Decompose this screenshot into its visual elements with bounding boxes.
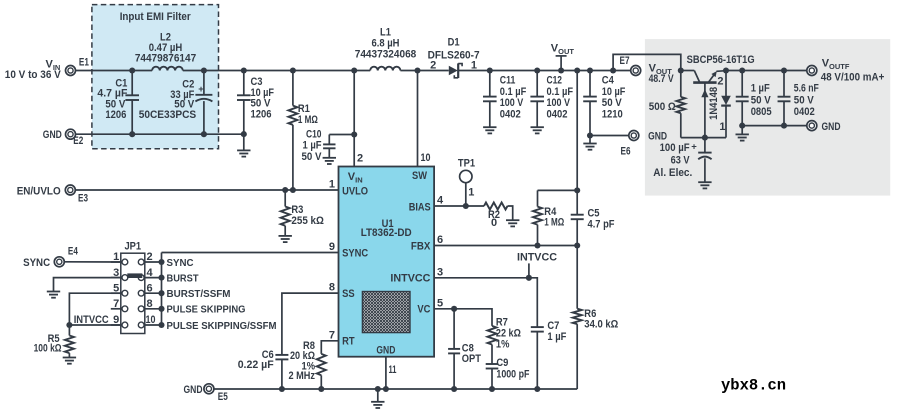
capacitor 5.6nF xyxy=(778,71,819,126)
svg-text:ybx8.cn: ybx8.cn xyxy=(721,377,786,395)
svg-text:48.7 V: 48.7 V xyxy=(649,73,675,85)
svg-text:1210: 1210 xyxy=(602,109,623,121)
svg-text:5: 5 xyxy=(437,297,443,309)
svg-text:50 V: 50 V xyxy=(751,94,772,106)
capacitor C9 xyxy=(486,345,530,390)
svg-text:PULSE SKIPPING/SSFM: PULSE SKIPPING/SSFM xyxy=(167,321,277,332)
node VIN pin wire xyxy=(351,67,357,73)
svg-text:PULSE SKIPPING: PULSE SKIPPING xyxy=(167,305,246,316)
JP1 pin 2 number xyxy=(147,251,153,263)
JP1 pin 5 number xyxy=(113,282,119,294)
wire FBX to R6 xyxy=(576,246,578,309)
watermark ybx8.cn xyxy=(721,377,786,395)
svg-text:EN/UVLO: EN/UVLO xyxy=(17,185,61,197)
JP1 left pin stubs xyxy=(111,262,122,325)
wire SW pin 10 xyxy=(417,71,419,167)
inductor L2 xyxy=(135,31,196,70)
node 1uF bottom xyxy=(739,123,745,129)
svg-text:7: 7 xyxy=(329,329,335,341)
node 5.6nF top xyxy=(781,67,787,73)
node C8 bottom xyxy=(451,386,457,392)
connector JP1 xyxy=(121,240,145,333)
svg-text:0402: 0402 xyxy=(500,109,521,121)
JP1 pin 9 number xyxy=(113,314,119,326)
svg-text:E3: E3 xyxy=(78,193,88,205)
svg-text:100 V: 100 V xyxy=(500,97,524,109)
svg-text:E5: E5 xyxy=(218,391,228,403)
svg-text:10 V to 36 V: 10 V to 36 V xyxy=(5,69,62,81)
Input EMI Filter box xyxy=(92,5,219,149)
wire bus to SYNC pin9 xyxy=(162,252,339,254)
svg-text:SBCP56-16T1G: SBCP56-16T1G xyxy=(687,54,755,66)
label GND E5 xyxy=(184,384,203,396)
svg-text:6: 6 xyxy=(147,282,153,294)
terminal E7 xyxy=(620,55,641,75)
JP1 pin 4 number xyxy=(147,267,154,279)
svg-text:1 µF: 1 µF xyxy=(303,139,322,151)
label VOUTF xyxy=(821,57,885,83)
wire EN/UVLO xyxy=(75,189,338,191)
ground below 1uF xyxy=(736,126,749,141)
svg-text:+: + xyxy=(691,142,697,153)
svg-text:1206: 1206 xyxy=(105,109,126,121)
svg-text:E6: E6 xyxy=(621,146,631,158)
label VOUT 48.7V xyxy=(649,62,675,85)
svg-text:50 V: 50 V xyxy=(794,94,815,106)
capacitor C2 xyxy=(139,71,213,135)
svg-text:50 V: 50 V xyxy=(302,151,323,163)
svg-text:LT8362-DD: LT8362-DD xyxy=(361,227,412,239)
node R8 bottom xyxy=(318,386,324,392)
terminal E3 xyxy=(65,185,88,205)
wire R2 to gnd xyxy=(508,206,513,220)
JP1 pin 6 number xyxy=(147,282,153,294)
ground below C10 xyxy=(323,148,336,164)
wire C4 to E6 xyxy=(590,135,629,137)
svg-text:BURST/SSFM: BURST/SSFM xyxy=(167,289,231,300)
wire GND rail E2 xyxy=(75,133,243,135)
node C3 bottom xyxy=(241,131,247,137)
svg-text:8: 8 xyxy=(147,298,153,310)
node R4C5 top xyxy=(574,187,580,193)
svg-text:JP1: JP1 xyxy=(124,240,141,252)
label GND E6 xyxy=(648,131,667,143)
node R1 bottom xyxy=(290,187,296,193)
svg-text:GND: GND xyxy=(648,131,667,143)
node gnd stub xyxy=(375,386,381,392)
capacitor C3 xyxy=(237,71,274,135)
wire emitter rail xyxy=(726,70,807,72)
ground below C12 xyxy=(531,127,544,133)
node C2 top xyxy=(201,67,207,73)
svg-text:7: 7 xyxy=(113,298,119,310)
pin number 6 xyxy=(437,234,443,246)
pin number 5 xyxy=(437,297,443,309)
node VOUT 48.7V xyxy=(678,67,684,73)
label GND E2 xyxy=(43,129,62,141)
resistor R3 xyxy=(281,190,324,236)
svg-text:Al. Elec.: Al. Elec. xyxy=(653,167,692,179)
resistor R2 xyxy=(484,203,508,229)
wire VOUT node to transistor xyxy=(681,70,695,72)
svg-text:6: 6 xyxy=(437,234,443,246)
capacitor C11 xyxy=(483,71,527,128)
svg-text:1 MΩ: 1 MΩ xyxy=(544,217,564,229)
pin number 9 xyxy=(329,241,335,253)
node C3 top xyxy=(241,67,247,73)
svg-text:UVLO: UVLO xyxy=(342,185,368,197)
resistor R7 xyxy=(488,316,522,350)
svg-text:SS: SS xyxy=(342,288,355,300)
capacitor C6 xyxy=(238,349,289,389)
wire VIN rail xyxy=(75,70,630,72)
svg-text:SW: SW xyxy=(412,170,428,182)
capacitor 100uF xyxy=(653,138,711,183)
wire VIN pin 2 xyxy=(353,71,355,167)
node 1N4148 top xyxy=(723,67,729,73)
pin number 4 xyxy=(437,194,444,206)
svg-text:0.22 µF: 0.22 µF xyxy=(238,359,274,371)
node 5.6nF bottom xyxy=(781,123,787,129)
svg-text:GND: GND xyxy=(376,345,395,357)
svg-text:2: 2 xyxy=(717,75,723,87)
svg-text:0402: 0402 xyxy=(547,109,568,121)
wire JP1 pin9 INTVCC xyxy=(69,314,120,326)
label PULSE SKIPPING/SSFM xyxy=(167,321,277,332)
svg-text:+: + xyxy=(198,84,204,95)
node SW pin wire xyxy=(414,67,420,73)
svg-text:Input EMI Filter: Input EMI Filter xyxy=(120,11,192,23)
wire INTVCC pin3 xyxy=(434,278,537,327)
svg-text:E2: E2 xyxy=(73,135,83,147)
svg-text:0402: 0402 xyxy=(794,106,815,118)
node C5 bottom xyxy=(574,242,580,248)
svg-text:100 µF: 100 µF xyxy=(660,142,690,154)
capacitor C12 xyxy=(530,71,573,128)
svg-text:D1: D1 xyxy=(448,36,460,48)
op-amp U1 LT8362-DD box xyxy=(339,167,435,357)
node INTVCC R5 xyxy=(66,322,72,328)
wire E7 bridge to output stage xyxy=(613,54,681,70)
svg-text:BIAS: BIAS xyxy=(409,201,431,213)
svg-text:2: 2 xyxy=(147,251,153,263)
svg-text:1N4148: 1N4148 xyxy=(708,87,720,120)
capacitor 1uF xyxy=(736,71,772,126)
wire feedback vertical xyxy=(576,71,578,191)
ground below rail xyxy=(371,389,384,408)
svg-text:5.6 nF: 5.6 nF xyxy=(794,83,819,95)
JP1 pin 7 number xyxy=(113,298,119,310)
svg-text:100 V: 100 V xyxy=(547,97,571,109)
wire base lead xyxy=(701,83,708,138)
node C10 tap xyxy=(351,131,357,137)
node INTVCC stub xyxy=(526,275,532,281)
resistor R8 xyxy=(289,340,326,389)
U1 exposed pad xyxy=(362,292,410,333)
terminal E1 xyxy=(66,57,89,76)
wire E4 to JP1 pin1 xyxy=(64,261,122,263)
svg-text:1 µF: 1 µF xyxy=(751,83,770,95)
svg-text:74479876147: 74479876147 xyxy=(135,52,196,64)
pin number 2 xyxy=(357,153,363,165)
node TP1 xyxy=(463,203,469,209)
wire bottom gnd rail xyxy=(214,388,577,390)
terminal E5 xyxy=(204,384,228,403)
svg-text:100 kΩ: 100 kΩ xyxy=(34,342,62,354)
svg-text:48 V/100 mA+: 48 V/100 mA+ xyxy=(821,72,885,84)
svg-text:GND: GND xyxy=(184,384,203,396)
node FB vertical top xyxy=(574,67,580,73)
node base net xyxy=(702,135,708,141)
diode 1N4148 xyxy=(708,71,731,138)
node C9 bottom xyxy=(489,386,495,392)
svg-text:GND: GND xyxy=(822,121,841,133)
svg-text:GND: GND xyxy=(43,129,62,141)
pin number 7 xyxy=(329,329,335,341)
svg-text:255 kΩ: 255 kΩ xyxy=(291,215,324,227)
pin number 3 xyxy=(437,266,443,278)
terminal GND out xyxy=(807,121,841,133)
node C12 top xyxy=(534,67,540,73)
wire GND pin11 xyxy=(385,357,387,389)
wire SS pin8 xyxy=(282,293,339,355)
svg-text:1: 1 xyxy=(719,121,725,133)
svg-text:BURST: BURST xyxy=(167,273,199,284)
svg-text:1 MΩ: 1 MΩ xyxy=(298,114,318,126)
node R4 bottom xyxy=(534,242,540,248)
svg-text:SYNC: SYNC xyxy=(342,247,368,259)
svg-text:1: 1 xyxy=(471,60,477,72)
svg-text:2: 2 xyxy=(430,60,436,72)
svg-text:INTVCC: INTVCC xyxy=(390,273,430,285)
pin number 11 xyxy=(389,364,397,376)
label BURST/SSFM xyxy=(167,289,231,300)
svg-text:C9: C9 xyxy=(496,357,508,369)
svg-text:INTVCC: INTVCC xyxy=(517,252,557,264)
capacitor C8 xyxy=(448,309,481,389)
svg-text:C4: C4 xyxy=(602,75,615,87)
node E7 bridge xyxy=(610,67,616,73)
terminal E6 xyxy=(621,131,639,158)
svg-text:SYNC: SYNC xyxy=(23,257,50,269)
ground below 100uF xyxy=(698,182,711,188)
svg-text:11: 11 xyxy=(389,364,397,376)
svg-text:VC: VC xyxy=(417,304,430,316)
output filter gray box xyxy=(645,39,890,196)
label SBCP56-16T1G xyxy=(687,54,755,66)
wire base net xyxy=(681,137,726,139)
svg-text:2 MHz: 2 MHz xyxy=(289,370,316,382)
svg-text:500 Ω: 500 Ω xyxy=(649,101,676,113)
ground below R3 xyxy=(279,236,292,242)
label BURST xyxy=(167,273,199,284)
terminal VOUTF xyxy=(807,66,817,76)
node C11 top xyxy=(487,67,493,73)
svg-text:1: 1 xyxy=(468,186,474,198)
label VIN input xyxy=(5,59,62,81)
resistor R6 xyxy=(573,308,619,389)
wire JP1 pin5 xyxy=(69,293,120,325)
svg-text:0805: 0805 xyxy=(751,106,772,118)
svg-text:SYNC: SYNC xyxy=(167,258,194,269)
pin number 1 xyxy=(329,179,335,191)
capacitor C5 xyxy=(571,190,615,245)
inductor L1 xyxy=(355,26,417,70)
svg-text:74437324068: 74437324068 xyxy=(355,49,417,61)
node R3 top xyxy=(282,187,288,193)
svg-text:OPT: OPT xyxy=(462,353,481,365)
node C2 bottom xyxy=(201,131,207,137)
capacitor C10 xyxy=(302,128,355,163)
terminal E4 xyxy=(54,245,78,266)
node 1uF top xyxy=(739,67,745,73)
svg-text:34.0 kΩ: 34.0 kΩ xyxy=(584,318,618,330)
label PULSE SKIPPING xyxy=(167,305,246,316)
node C4 top xyxy=(587,67,593,73)
svg-text:R7: R7 xyxy=(496,316,508,328)
pin number 8 xyxy=(329,282,335,294)
node R1 top xyxy=(290,67,296,73)
svg-text:4.7 pF: 4.7 pF xyxy=(588,219,615,231)
ground below R5 xyxy=(63,358,76,364)
JP1 pin 8 number xyxy=(147,298,153,310)
ground below JP1 pin3 xyxy=(47,292,60,298)
JP1 pin 10 number xyxy=(146,314,156,326)
capacitor C1 xyxy=(97,71,139,135)
pin number 10 xyxy=(421,152,431,164)
label VOUT net xyxy=(551,43,575,71)
ground below C3 xyxy=(237,134,250,157)
svg-text:C11: C11 xyxy=(500,75,516,87)
svg-text:3: 3 xyxy=(437,266,443,278)
svg-text:TP1: TP1 xyxy=(458,157,475,169)
JP1 jumper bus xyxy=(158,253,164,329)
node pin11 bottom xyxy=(383,386,389,392)
wire VC pin5 xyxy=(434,309,492,326)
svg-text:50CE33PCS: 50CE33PCS xyxy=(139,109,197,121)
capacitor C4 xyxy=(583,71,625,136)
ground below C4 xyxy=(583,136,596,150)
resistor R4 xyxy=(533,190,564,245)
svg-text:0: 0 xyxy=(491,217,497,229)
svg-text:RT: RT xyxy=(342,336,355,348)
svg-text:9: 9 xyxy=(329,241,335,253)
wire BIAS pin4 xyxy=(434,205,484,207)
svg-text:1: 1 xyxy=(329,179,335,191)
resistor 500ohm xyxy=(649,71,685,138)
svg-text:2: 2 xyxy=(357,153,363,165)
label SYNC E4 xyxy=(23,257,50,269)
svg-text:4: 4 xyxy=(437,194,444,206)
capacitor C7 xyxy=(531,320,567,389)
svg-text:1206: 1206 xyxy=(251,108,272,120)
svg-text:50 V: 50 V xyxy=(602,97,623,109)
node C6 bottom xyxy=(279,386,285,392)
svg-text:10: 10 xyxy=(421,152,431,164)
label INTVCC net xyxy=(517,252,557,278)
wire R4C5 top xyxy=(538,189,578,191)
JP1 pin 3 number xyxy=(113,267,119,279)
svg-text:1000 pF: 1000 pF xyxy=(496,369,529,381)
label EN/UVLO xyxy=(17,185,61,197)
svg-text:E7: E7 xyxy=(620,55,630,67)
test point TP1 xyxy=(458,157,475,206)
node C1 bottom xyxy=(129,131,135,137)
label SYNC mode xyxy=(167,258,194,269)
svg-text:FBX: FBX xyxy=(411,240,431,252)
JP1 pin 1 number xyxy=(113,251,119,263)
JP1 right pin stubs xyxy=(144,262,162,325)
svg-text:1%: 1% xyxy=(496,338,510,350)
transistor Q1 SBCP56 xyxy=(693,71,726,88)
svg-text:4: 4 xyxy=(147,267,154,279)
node C7 bottom xyxy=(534,386,540,392)
node C1 top xyxy=(129,67,135,73)
svg-text:E4: E4 xyxy=(68,245,79,257)
svg-text:INTVCC: INTVCC xyxy=(74,314,109,326)
ground below C11 xyxy=(483,127,496,133)
svg-text:C12: C12 xyxy=(547,75,563,87)
svg-text:63 V: 63 V xyxy=(671,155,691,167)
terminal E2 xyxy=(66,129,84,147)
resistor R5 xyxy=(34,325,74,358)
diode D1 xyxy=(428,36,480,78)
node VOUT stub xyxy=(558,67,564,73)
resistor R1 xyxy=(288,71,318,191)
wire FBX pin6 xyxy=(434,245,577,247)
node C8 top xyxy=(451,306,457,312)
wire filter gnd rail xyxy=(742,125,807,127)
wire JP1 pin3 to gnd xyxy=(54,278,121,292)
svg-text:E1: E1 xyxy=(79,57,89,69)
svg-text:10: 10 xyxy=(146,314,156,326)
wire RT pin7 xyxy=(321,341,338,354)
svg-text:8: 8 xyxy=(329,282,335,294)
node C4 bottom xyxy=(587,132,593,138)
svg-text:1 µF: 1 µF xyxy=(547,331,566,343)
ground right of R2 xyxy=(506,220,519,226)
